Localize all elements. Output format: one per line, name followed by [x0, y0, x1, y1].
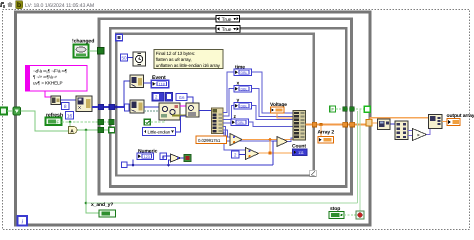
build array node outside — [429, 115, 443, 129]
wire: 50 to wait — [128, 57, 134, 59]
case selector A — [216, 16, 240, 23]
blue constant for multiply2 — [232, 151, 240, 158]
wire: index down to multiply2 — [223, 132, 246, 150]
conditional terminal (stop sign) — [356, 211, 364, 219]
wire: stub down to Array 2 — [320, 125, 322, 137]
50 constant — [121, 54, 128, 61]
build array node — [293, 111, 306, 141]
wire: dequeue2 to flatten icon — [144, 106, 159, 108]
svg-text:LV: 18.0 1/6/2024 11:05:43 AM: LV: 18.0 1/6/2024 11:05:43 AM — [25, 3, 94, 9]
wire: dequeue1 to Event terminal — [144, 82, 152, 84]
wire: z terminal to build node — [249, 122, 294, 127]
index array node — [212, 108, 224, 134]
svg-text:123: 123 — [144, 155, 150, 159]
wire: long wire up to scale triangle — [169, 160, 171, 165]
svg-text:118: 118 — [159, 82, 165, 86]
svg-text:DBL: DBL — [241, 71, 248, 75]
occurrence square — [184, 155, 191, 162]
wire: branch up to dequeue 1 — [124, 81, 130, 107]
svg-text:True: True — [222, 27, 232, 33]
wire: triangle to occurrence — [181, 157, 185, 159]
wire: refresh to tunnels (dashed boolean) — [62, 121, 113, 123]
svg-text:flatten as u8 array,: flatten as u8 array, — [156, 57, 192, 62]
refresh boolean terminal — [46, 118, 62, 126]
VI icon (queue create) — [76, 96, 92, 112]
wire: converter to VI icon — [61, 99, 77, 101]
dashed boolean wire to loop tunnel — [336, 108, 365, 110]
wire: And output down to x-and-y — [86, 130, 99, 213]
svg-text:uv¶ > KKHELP: uv¶ > KKHELP — [33, 81, 63, 86]
Array 2 terminal — [318, 137, 334, 144]
svg-text:DBL: DBL — [241, 87, 248, 91]
svg-text:50: 50 — [121, 56, 127, 61]
wire: long boolean to right — [86, 202, 358, 204]
wire: index to multiply1 — [223, 130, 230, 137]
outside: tunnel to cluster icon wire — [372, 122, 378, 124]
boolean control terminal (outside loop, left edge) — [0, 108, 7, 115]
wire: refresh branch down to And — [69, 122, 71, 127]
vertical boolean wires down right side — [357, 111, 359, 203]
svg-text:F: F — [331, 107, 334, 112]
LabVIEW version icon — [16, 1, 23, 10]
wire: build array to output terminal — [442, 121, 447, 123]
comment box — [154, 50, 223, 69]
inner loop top-left icon — [116, 34, 123, 41]
loop edge boolean tunnel — [364, 106, 370, 112]
Count terminal — [293, 149, 308, 156]
case selector B — [216, 26, 240, 33]
junction dots on queue wire — [115, 106, 118, 109]
while loop border — [15, 12, 370, 225]
string-to-byte-array node — [51, 96, 61, 105]
boolean tunnels on case borders (two rows) — [98, 119, 104, 125]
multiply 1 — [230, 134, 242, 146]
wire: index row2 to x — [223, 89, 234, 117]
scale triangle near numeric — [171, 154, 181, 162]
long numeric wire — [127, 164, 273, 166]
error wire dequeue2 to flatten — [144, 110, 159, 112]
multiply 2 — [246, 148, 259, 160]
main array wire out — [306, 124, 368, 126]
svg-text:0.02991751: 0.02991751 — [198, 138, 221, 143]
wire: And output right with junction — [78, 129, 113, 131]
wire: unflatten to index node — [199, 110, 212, 112]
svg-text:unflatten as little-endian i16: unflatten as little-endian i16 array — [156, 63, 221, 68]
unbundle node outside — [395, 121, 408, 140]
string constant (pink box) — [26, 66, 88, 92]
iteration terminal i — [18, 216, 28, 226]
case structure B border — [110, 28, 346, 186]
wire: combo to unflatten — [176, 116, 186, 132]
junction for stop feed — [85, 202, 88, 205]
wire: cluster icon to unbundle — [391, 123, 396, 125]
tunnel (case A left, boolean) — [98, 48, 105, 55]
dequeue icon 2 — [130, 100, 144, 113]
svg-text:DBL: DBL — [238, 121, 245, 125]
wire: index row3 to y — [223, 106, 234, 120]
title text — [25, 3, 94, 9]
svg-text:I16: I16 — [179, 95, 185, 100]
stop terminal — [329, 212, 344, 219]
wire: boolean to shift register — [7, 110, 13, 112]
time terminal — [234, 69, 252, 76]
junction on refresh wire — [69, 121, 72, 124]
wire: multiply1 out (orange) — [242, 139, 293, 141]
toolbar glyph 2 — [7, 2, 13, 7]
boolean tunnels right side — [343, 107, 348, 112]
junction dot — [232, 122, 235, 125]
wire: I16 to unflatten — [187, 97, 193, 104]
enum constant 2 — [152, 93, 164, 102]
wire: numeric long wire up to count triangle — [273, 141, 277, 165]
tunnel constant on inner left — [122, 162, 128, 168]
wire: orange down to count — [269, 140, 271, 153]
numeric constant 16 — [66, 112, 74, 120]
svg-text:¶ ¬¹ⁿ ∞¶¹à¬ⁿ: ¶ ¬¹ⁿ ∞¶¹à¬ⁿ — [33, 74, 57, 79]
dashed wire from true constant — [151, 118, 165, 122]
svg-text:8: 8 — [64, 104, 67, 110]
small constant 8 near numeric — [160, 153, 167, 160]
wire: time terminal to build node — [252, 72, 294, 113]
z terminal — [231, 119, 249, 126]
long orange wire above — [371, 118, 429, 120]
svg-text:!changed: !changed — [72, 39, 94, 45]
svg-text:b: b — [17, 1, 21, 9]
Numeric terminal — [137, 153, 154, 160]
Voltage terminal — [271, 107, 285, 113]
array-to-cluster icon — [378, 119, 391, 130]
case structure A border — [99, 19, 352, 194]
wire: 8 down to triangle — [163, 156, 171, 160]
error wire between icons (dark yellow) — [172, 112, 189, 116]
dashed wire stop to conditional — [344, 214, 356, 216]
x terminal — [234, 86, 252, 93]
wire: shift register to And node — [21, 111, 69, 131]
svg-text:True: True — [222, 17, 232, 23]
pink wire: flatten to unflatten icon — [180, 105, 186, 107]
little-endian combo — [143, 128, 176, 136]
wire: y terminal to build node — [252, 106, 294, 120]
numeric constant 8 — [62, 103, 70, 111]
output array terminal — [447, 119, 460, 126]
inner loop border — [116, 34, 314, 176]
svg-text:111: 111 — [298, 151, 304, 155]
svg-text:Little-endian: Little-endian — [148, 130, 171, 135]
svg-text:16: 16 — [67, 113, 73, 119]
junction square Array 2 — [320, 123, 323, 126]
y terminal — [234, 103, 252, 110]
wire: count triangle to build node — [288, 138, 294, 142]
loop edge array tunnel — [366, 120, 372, 127]
x and y? terminal — [99, 210, 116, 217]
!changed boolean terminal — [74, 45, 89, 58]
svg-text:DBL: DBL — [241, 104, 248, 108]
purple wires to compare triangle — [408, 130, 413, 132]
svg-text:Final 12 of 13 bytes:: Final 12 of 13 bytes: — [156, 51, 195, 56]
enum constant 2b — [166, 93, 173, 102]
Event terminal — [151, 80, 169, 88]
wire: const to multiply2 — [239, 154, 246, 156]
inner loop bottom-right corner icon — [310, 170, 316, 176]
svg-text:¬d¹à ∞¡¶ ¬F¹à ∞¶: ¬d¹à ∞¡¶ ¬F¹à ∞¶ — [33, 68, 68, 73]
wire: !changed to case tunnel — [89, 50, 99, 52]
true constant (checkmark) — [144, 119, 150, 125]
wait (ms) icon — [133, 52, 146, 66]
toolbar glyph 1 — [0, 2, 5, 8]
wire: x terminal to build node — [252, 89, 294, 117]
wire: voltage down to build node — [277, 113, 293, 118]
wire: triangle to build array 2 — [427, 129, 431, 135]
orange junction dot — [269, 138, 272, 141]
wire: index row4 to z — [223, 122, 234, 123]
wire: string constant down to converter — [45, 91, 51, 97]
false constant F — [330, 106, 336, 112]
orange junction square — [269, 151, 272, 154]
wire: index row1 to time — [223, 72, 234, 113]
wire: index to count triangle — [223, 127, 277, 142]
small blue element on wire — [125, 104, 130, 111]
shift register on while-loop left border — [13, 107, 21, 115]
scale constant 0.0299175 — [196, 136, 227, 144]
compare triangle outside — [413, 129, 427, 141]
dequeue icon 1 — [130, 75, 144, 88]
And node — [69, 127, 78, 134]
main queue wire out of VI — [92, 106, 130, 108]
svg-text:Array 2: Array 2 — [318, 130, 335, 136]
array tunnels on structure edges — [312, 122, 317, 127]
count triangle — [277, 137, 288, 147]
wire: numeric down to long wire — [132, 160, 134, 166]
unflatten icon — [186, 103, 199, 117]
queue tunnels on case borders — [98, 104, 104, 110]
svg-text:x_and_y?: x_and_y? — [91, 202, 113, 208]
wire: multiply2 out orange to Count — [259, 152, 293, 154]
flatten icon (large VI) — [159, 103, 180, 120]
type constant I16 — [176, 94, 187, 101]
